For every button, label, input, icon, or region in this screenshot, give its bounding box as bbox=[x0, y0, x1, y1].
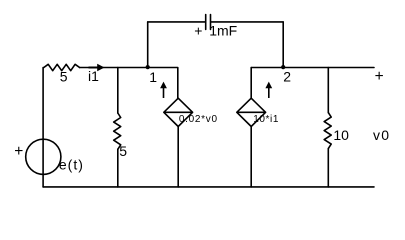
wire node1 to capacitor bbox=[147, 22, 149, 68]
wire node2 top right bbox=[251, 67, 374, 69]
arrow source1 up bbox=[160, 82, 167, 98]
svg-text:2: 2 bbox=[283, 69, 291, 85]
node 1 dot bbox=[146, 65, 150, 69]
svg-text:1mF: 1mF bbox=[209, 22, 237, 38]
svg-text:10*i1: 10*i1 bbox=[253, 114, 279, 125]
wire node2 to capacitor bbox=[282, 22, 284, 68]
wire left rail bbox=[42, 68, 44, 187]
dependent source U1 diamond 0.02*v0 bbox=[164, 98, 193, 126]
wire diamond2 top lead bbox=[250, 68, 252, 99]
svg-text:1: 1 bbox=[149, 69, 157, 85]
wire 10ohm branch bottom lead bbox=[327, 149, 329, 187]
svg-text:10: 10 bbox=[333, 127, 349, 143]
svg-text:+: + bbox=[14, 143, 23, 160]
wire resistor to node1 corner bbox=[80, 68, 178, 99]
voltage source V1 circle e(t) bbox=[26, 139, 61, 174]
wire 10ohm branch top lead bbox=[327, 68, 329, 113]
capacitor C plates 1mF bbox=[206, 15, 211, 30]
svg-text:v0: v0 bbox=[373, 127, 390, 143]
resistor R1 5 horizontal zigzag bbox=[44, 64, 80, 70]
svg-text:5: 5 bbox=[119, 143, 127, 159]
svg-text:+: + bbox=[375, 68, 384, 85]
wire 5ohm branch top lead bbox=[117, 68, 119, 114]
node 2 dot bbox=[281, 65, 285, 69]
svg-text:0.02*v0: 0.02*v0 bbox=[179, 114, 218, 125]
svg-text:5: 5 bbox=[60, 69, 68, 85]
wire bottom rail bbox=[43, 186, 374, 188]
current arrow i1 on top wire bbox=[89, 64, 105, 71]
wire diamond2 to bottom rail bbox=[250, 127, 252, 187]
svg-text:+: + bbox=[194, 22, 202, 38]
resistor R2 5 vertical zigzag bbox=[114, 113, 121, 149]
dependent source U2 diamond 10*i1 bbox=[237, 98, 266, 126]
svg-text:e(t): e(t) bbox=[59, 157, 84, 173]
arrow source2 up bbox=[265, 82, 272, 98]
resistor R3 10 vertical zigzag bbox=[324, 113, 331, 149]
wire top capacitor right bbox=[211, 21, 283, 23]
wire 5ohm branch bottom lead bbox=[117, 149, 119, 187]
wire diamond1 to bottom rail bbox=[177, 127, 179, 187]
svg-text:i1: i1 bbox=[88, 68, 99, 84]
wire top capacitor left bbox=[148, 21, 205, 23]
